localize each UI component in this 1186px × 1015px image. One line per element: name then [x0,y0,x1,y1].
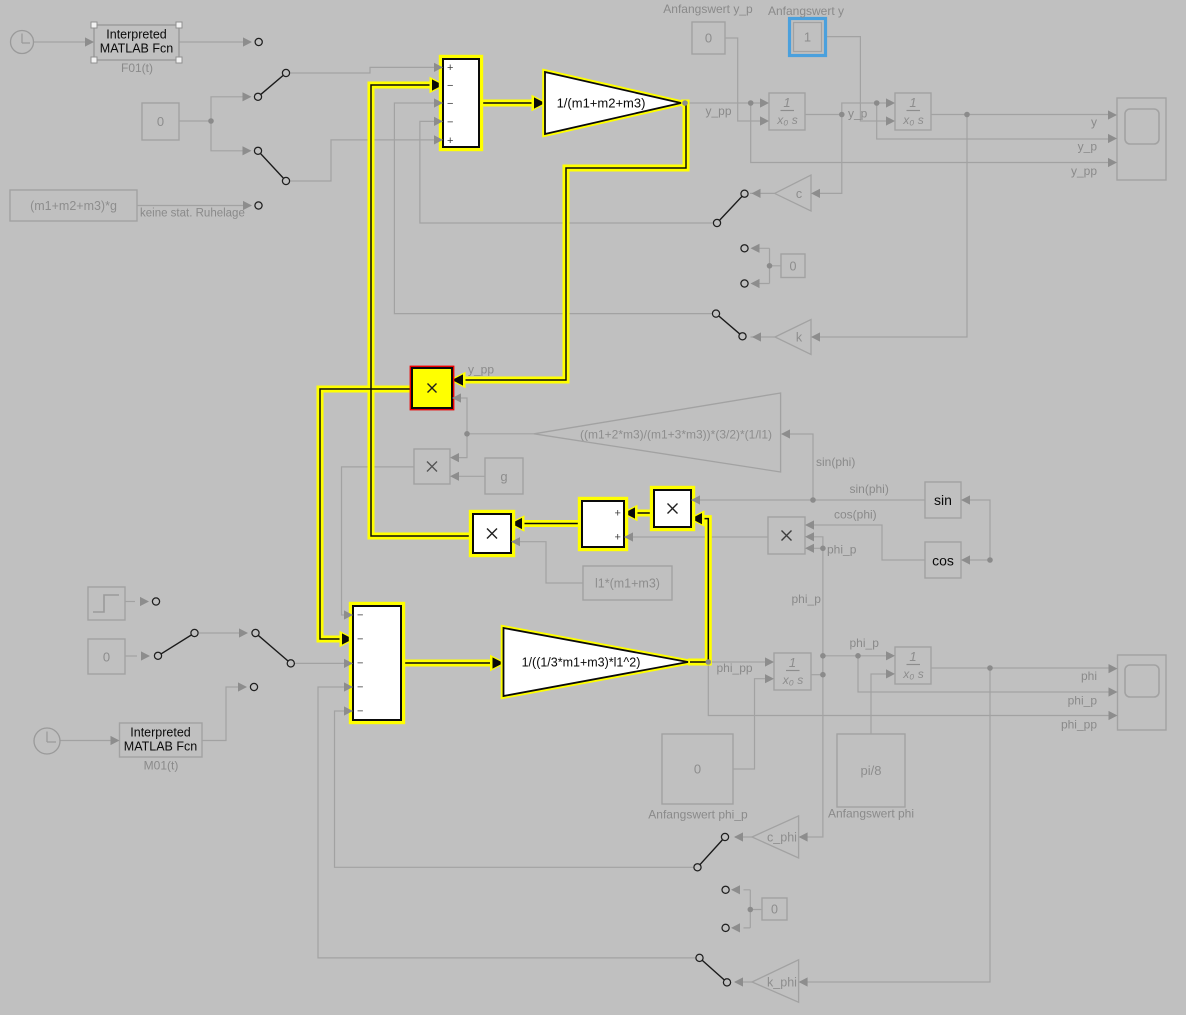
svg-text:0: 0 [771,903,778,917]
svg-text:0: 0 [705,31,712,46]
wire integrator1 output to y_p node [805,114,842,116]
wire gain1 output down to x1 input1 (yellow underlay) [461,103,686,380]
arrow sin input [961,495,970,504]
svg-text:x₀ s: x₀ s [776,113,797,127]
multiply xgray [414,449,450,484]
arrow switch B upstream [243,146,252,155]
node y_pp before integrator1 [748,100,754,106]
node const0kphi [748,907,754,913]
multiply x3 highlighted [652,488,694,530]
terminator circle step out [152,598,159,605]
arrow yellow into gain2 [490,655,507,671]
arrow integrator3 input1 [765,657,774,666]
switch k diagonal [716,314,743,337]
node sin line [810,497,816,503]
arrow const0k upper dangle [751,244,760,253]
svg-text:cos: cos [932,553,954,569]
svg-text:(m1+m2+m3)*g: (m1+m2+m3)*g [30,199,117,213]
node phi after integrator4 [987,665,993,671]
node const0 branch [208,118,214,124]
multiply x1 selected red yellow [411,367,453,409]
svg-text:1: 1 [783,95,790,110]
arrow const0k lower dangle [751,279,760,288]
terminator circle mg out [255,202,262,209]
svg-text:phi: phi [1081,669,1097,683]
node big gain output [464,431,470,437]
arrow integrator3 x0 input [765,674,774,683]
wire sum1 to gain1 (yellow underlay) [479,100,536,107]
svg-text:sin: sin [934,492,952,508]
clock2 icon [34,728,60,754]
arrow integrator1 input1 [760,98,769,107]
wire gain2 output up to x3 input2 (black core) [690,519,708,662]
integrator2 1/x0s [895,93,931,130]
wire gain2 output up to x3 input2 (yellow underlay) [688,519,708,662]
arrow scope2 input3 [1109,711,1118,720]
wire mg block output dangling [137,205,244,207]
scope2 [1118,655,1167,730]
switch c_phi diagonal [698,837,726,867]
wire phi_pp feedback to scope2 input3 [708,662,1108,716]
node phi_p upper [820,653,826,659]
svg-text:y_p: y_p [1078,140,1098,154]
wire c gain output stub [750,192,775,194]
svg-text:phi_p: phi_p [850,636,880,650]
svg-text:−: − [447,80,453,92]
arrow scope1 input3 [1108,158,1117,167]
arrow yellow into sum1 input2 [430,77,447,93]
arrow k_phi dangling output [734,977,743,986]
svg-text:−: − [357,682,363,694]
block const 0 Anfangswert y_p [692,22,725,54]
wire gain1 output down to x1 input1 (black core) [461,103,686,380]
svg-text:1: 1 [789,655,796,670]
svg-text:sin(phi): sin(phi) [850,482,889,496]
svg-text:x₀ s: x₀ s [782,673,803,687]
node gain2 output phi_pp [706,659,712,665]
svg-text:cos(phi): cos(phi) [834,508,877,522]
arrow sum1 input3 [434,98,443,107]
arrow xgray input2 [450,472,459,481]
arrow yellow into sum3 input1 [621,505,638,521]
arrow k_phi input [799,977,808,986]
wire x3 output to sum3 input1 (yellow underlay) [633,510,654,517]
svg-text:−: − [357,658,363,670]
wire clock1 to F01 [34,41,88,43]
arrow scope1 input2 [1108,134,1117,143]
arrow yellow into sum2 input2 [340,631,357,647]
wire phi_p riser main vertical [807,548,823,837]
svg-text:y_p: y_p [848,107,868,121]
wire branch to switch B port [211,121,243,151]
svg-text:MATLAB Fcn: MATLAB Fcn [124,740,197,754]
sum block sum2 [351,604,404,723]
arrow sum1 input4 [434,117,443,126]
svg-text:y_pp: y_pp [1071,164,1097,178]
wire switch to sum2 input3 [295,662,345,664]
arrow x4 input1 [805,520,814,529]
svg-text:−: − [357,706,363,718]
wire x4 output to sum3 input2 [633,536,769,538]
svg-text:MATLAB Fcn: MATLAB Fcn [100,42,173,56]
svg-text:1/(m1+m2+m3): 1/(m1+m2+m3) [557,96,646,111]
arrow c_phi dangling output [734,832,743,841]
arrow big gain input [781,429,790,438]
wire step output dangling [125,601,135,603]
node phi_p at x4 [820,546,826,552]
wire x1 output down to sum2 input2 (black core) [320,389,412,639]
svg-text:0: 0 [157,114,164,129]
svg-text:Anfangswert phi: Anfangswert phi [828,807,914,821]
arrow x4 input3 [805,544,814,553]
arrow F01 dangling output [243,37,252,46]
wire y_p node down to c gain input [820,115,842,194]
integrator4 1/x0s [895,647,931,684]
svg-text:Anfangswert y: Anfangswert y [768,4,844,18]
wire integrator3 output to phi_p node [811,674,823,676]
arrow switch A upstream [243,92,252,101]
wire sum3 output to x2 input1 (black core) [520,523,582,525]
svg-text:0: 0 [790,260,797,274]
node const0k [767,263,773,269]
arrow yellow into x2 input1 [508,515,525,531]
node y after integrator2 [964,112,970,118]
svg-text:−: − [447,116,453,128]
wire sin node up to big gain input [790,434,814,500]
node gain1 output y_pp [682,100,688,106]
gain k_phi [752,960,799,1002]
svg-text:−: − [357,634,363,646]
svg-text:phi_p: phi_p [827,543,857,557]
svg-text:Interpreted: Interpreted [106,28,167,42]
wire k_phi feedback to sum2 input4 [318,687,696,958]
arrow x3 input1 [691,495,700,504]
arrow c_phi input [799,832,808,841]
switch B diagonal [258,151,286,181]
block F01 Interpreted MATLAB Fcn [91,22,182,63]
wire phi_p feedback to scope2 input2 [858,656,1109,692]
node y_p before integrator2 [874,100,880,106]
svg-text:x₀ s: x₀ s [902,667,923,681]
arrow yellow into gain1 [532,95,549,111]
arrow integrator4 x0 input [886,669,895,678]
wire x3 output to sum3 input1 (black core) [633,512,654,514]
block M01 Interpreted MATLAB Fcn [120,723,203,757]
sum3 block highlighted [580,499,627,550]
switch A circles [254,93,261,100]
svg-text:Anfangswert y_p: Anfangswert y_p [663,2,753,16]
svg-text:y_pp: y_pp [706,104,732,118]
arrow sum3 input2 [624,532,633,541]
svg-text:y_pp: y_pp [468,363,494,377]
arrow scope1 input1 [1108,110,1117,119]
wire switch A to sum1 input1 [291,67,435,73]
wire Anfangswert phi to integrator4 x0 input [871,674,887,734]
wire y node down to k gain input [820,115,968,338]
block const g [485,458,523,494]
node cos line [987,557,993,563]
svg-text:−: − [357,610,363,622]
wire integrator2 output y to scope1 input1 [931,114,1109,116]
wire Anfangswert y_p to integrator1 x0 input [725,38,760,121]
svg-text:+: + [615,508,621,520]
gain c_phi [752,816,799,858]
wire c feedback to sum1 input4 [420,121,713,223]
gain2 1/((1/3*m1+m3)*l1^2) [504,628,689,696]
arrow k gain input [811,332,820,341]
block step [88,587,125,620]
wire g block output to xgray input2 [459,475,486,477]
block const 1 Anfangswert y selected blue [790,19,826,56]
wire gain2 node to integrator3 input1 [708,661,765,663]
arrow sum2 input5 [344,706,353,715]
svg-text:+: + [447,135,453,147]
block const 0 near k_phi switch [762,898,787,920]
wire big gain node down to xgray input1 [459,434,468,458]
wire Anfangswert y to integrator2 x0 input [825,37,887,121]
arrow cos input [961,555,970,564]
terminator circle const0k upper [741,245,748,252]
svg-text:c_phi: c_phi [767,831,797,845]
svg-text:F01(t): F01(t) [121,61,153,75]
scope1 [1117,98,1166,180]
wire x1 output down to sum2 input2 (yellow underlay) [320,389,412,639]
switch c_phi circles [694,864,701,871]
node phi_p scope branch [855,653,861,659]
arrow yellow into x3 input2 [688,510,705,526]
wire phi_p node to integrator4 input1 [823,656,887,675]
integrator1 1/x0s [769,93,805,130]
arrow yellow into x1 input1 [449,372,466,388]
arrow integrator4 input1 [886,651,895,660]
arrow scope2 input1 [1109,664,1118,673]
switch k_phi circles [696,954,703,961]
wire branch to switch A port [211,97,243,121]
arrow scope2 input2 [1109,687,1118,696]
multiply x2 highlighted [471,512,514,556]
wire y_pp feedback to scope1 input3 [751,103,1109,163]
arrow mg dangling output [243,201,252,210]
wire sin output to x3 input1 [700,499,926,501]
wire c_phi feedback to sum2 input5 [335,711,694,867]
wire F01 output dangling [179,41,244,43]
wire phi node down to k_phi input [807,668,990,982]
wire phi_p riser with jog into x4 inputs2-3 [814,537,823,549]
arrow x1 input2 [452,393,461,402]
block const 0 Anfangswert phi_p [662,734,733,804]
block (m1+m2+m3)*g [10,190,137,221]
svg-text:l1*(m1+m3): l1*(m1+m3) [595,577,660,591]
block sin [925,482,961,518]
switch M1 circles [154,652,161,659]
block l1*(m1+m3) [583,566,672,600]
arrow k gain dangling output [752,332,761,341]
wire const0 k block to two dangling ports [758,248,782,283]
svg-text:0: 0 [103,650,110,665]
svg-text:g: g [500,469,507,484]
svg-text:phi_p: phi_p [792,592,822,606]
wire Anfangswert phi_p to integrator3 x0 input [733,679,766,769]
arrow into M01 [111,736,120,745]
wire const0 kphi block to two dangling ports [744,890,763,928]
wire x2 output up to sum1 input2 (yellow underlay) [371,85,473,536]
svg-text:phi_p: phi_p [1068,694,1098,708]
wire k feedback to sum1 input3 [394,103,711,314]
switch k_phi diagonal [700,958,728,983]
svg-text:pi/8: pi/8 [861,763,882,778]
arrow sum1 input5 [434,135,443,144]
arrow sum1 input1 [434,63,443,72]
integrator3 1/x0s [774,653,811,690]
arrow sum2 input1 [344,610,353,619]
arrow into F01 [85,37,94,46]
switch A diagonal [258,73,286,97]
block cos [925,542,961,578]
switch k circles [712,310,719,317]
svg-text:1: 1 [804,30,811,45]
wire sum3 output to x2 input1 (yellow underlay) [520,520,582,527]
svg-text:phi_pp: phi_pp [717,661,753,675]
arrow sum2 input3 [344,659,353,668]
clock1 icon [11,31,34,54]
arrow const0kphi lower dangle [731,923,740,932]
big gain ((m1+2*m3)/(m1+3*m3))*(3/2)*(1/l1) [534,393,781,472]
svg-text:1: 1 [909,95,916,110]
svg-text:y: y [1091,115,1097,129]
wire cos output to x4 input1 [814,525,926,560]
svg-text:sin(phi): sin(phi) [816,455,855,469]
svg-text:Anfangswert phi_p: Anfangswert phi_p [648,808,748,822]
svg-text:1: 1 [909,649,916,664]
arrow integrator1 x0 input [760,116,769,125]
node y_p after integrator1 [839,112,845,118]
wire c_phi output stub [735,836,752,838]
wire k gain output stub [751,336,776,338]
arrow xgray input1 [450,453,459,462]
switch B circles [254,147,261,154]
wire switch mid segment [199,632,239,634]
switch M2 diagonal [256,633,291,663]
wire const0 top output to branch node [179,120,211,122]
wire sum2 to gain2 (black core) [401,662,495,664]
terminator circle const0kphi upper [722,886,729,893]
gain k [775,320,811,355]
svg-text:c: c [796,187,802,201]
wire y_p node jog to integrator2 input1 [842,103,887,115]
wire gain1 node to integrator1 input1 [685,102,760,104]
wire x2 output up to sum1 input2 (black core) [371,85,473,536]
wire M01 output dangling [202,687,239,741]
svg-text:M01(t): M01(t) [144,759,179,773]
wire l1 block output to x2 input2 [520,542,584,583]
svg-text:k: k [796,331,803,345]
switch c circles [713,219,720,226]
svg-text:−: − [447,98,453,110]
wire big gain output node to x1 input2 [461,398,535,434]
arrow sum2 input4 [344,682,353,691]
block const 0 near M01 [88,639,125,674]
arrow integrator2 x0 input [886,116,895,125]
wire sum2 to gain2 (yellow underlay) [401,660,495,667]
svg-text:keine stat. Ruhelage: keine stat. Ruhelage [140,208,245,220]
terminator circle const0k lower [741,280,748,287]
block const 0 near k switch [781,254,805,278]
svg-text:+: + [615,532,621,544]
wire const0 M output to switch [125,655,137,657]
gain1 1/(m1+m2+m3) [545,72,681,134]
arrow const0M to switch [141,651,150,660]
svg-text:x₀ s: x₀ s [902,113,923,127]
svg-text:1/((1/3*m1+m3)*l1^2): 1/((1/3*m1+m3)*l1^2) [522,656,641,670]
arrow x4 input2 [805,532,814,541]
wire xgray output to sum2 input1 [342,467,415,615]
svg-text:Interpreted: Interpreted [130,726,191,740]
node phi_p lower [820,672,826,678]
gain c [775,175,811,211]
arrow const0kphi upper dangle [731,885,740,894]
wire phi node up to cos input [970,500,991,560]
arrow step dangling [140,597,149,606]
sum block sum1 [441,57,482,150]
arrow c gain input [811,189,820,198]
arrow M01 dangling [238,682,247,691]
block const 0 top-left [142,103,179,140]
block const pi/8 Anfangswert phi [837,734,905,807]
terminator circle F01 out [255,38,262,45]
wire sum1 to gain1 (black core) [479,102,536,104]
arrow mid switch segment [239,628,248,637]
switch M1 diagonal [158,633,195,656]
arrow x2 input2 [511,537,520,546]
wire integrator4 output phi to scope2 input1 [931,667,1109,669]
terminator circle const0kphi lower [722,924,729,931]
svg-text:((m1+2*m3)/(m1+3*m3))*(3/2)*(1: ((m1+2*m3)/(m1+3*m3))*(3/2)*(1/l1) [580,428,772,442]
svg-text:0: 0 [694,762,701,777]
wire switch B to sum1 input5 [291,140,435,181]
multiply x4 [768,517,805,554]
svg-text:phi_pp: phi_pp [1061,718,1097,732]
wire k_phi output stub [735,981,752,983]
arrow integrator2 input1 [886,98,895,107]
switch M2 circles [252,629,259,636]
svg-text:+: + [447,62,453,74]
svg-text:k_phi: k_phi [767,976,797,990]
switch c diagonal [717,194,745,223]
wire clock2 to M01 [60,740,111,742]
wire y_p feedback to scope1 input2 [877,103,1109,139]
terminator circle M01 out [250,683,257,690]
arrow c gain dangling output [752,189,761,198]
